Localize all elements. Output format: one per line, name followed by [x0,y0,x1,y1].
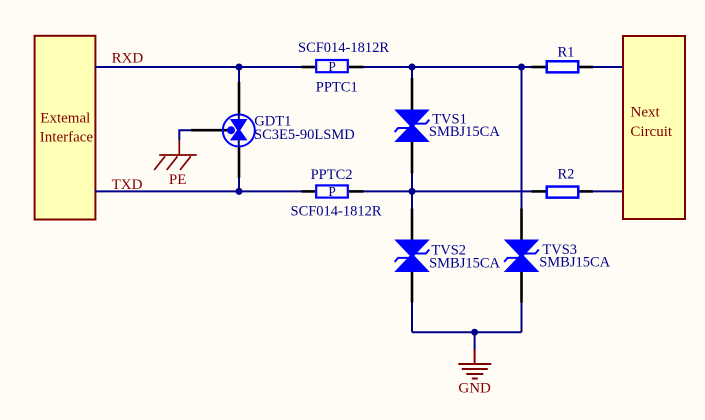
svg-text:PPTC1: PPTC1 [316,79,358,95]
svg-text:TXD: TXD [112,177,143,193]
svg-text:Circuit: Circuit [630,124,672,140]
svg-text:PE: PE [169,172,187,188]
svg-text:R2: R2 [558,167,575,183]
svg-text:SCF014-1812R: SCF014-1812R [298,40,389,56]
svg-text:SMBJ15CA: SMBJ15CA [429,255,500,271]
svg-text:SMBJ15CA: SMBJ15CA [429,124,500,140]
svg-text:SMBJ15CA: SMBJ15CA [539,254,610,270]
svg-text:P: P [328,184,335,199]
svg-text:SCF014-1812R: SCF014-1812R [291,203,382,219]
svg-text:Interface: Interface [40,129,94,145]
svg-text:GND: GND [458,381,491,397]
svg-text:Next: Next [631,105,661,121]
svg-text:RXD: RXD [112,51,144,67]
svg-text:PPTC2: PPTC2 [311,167,353,183]
svg-text:R1: R1 [558,44,575,60]
svg-text:Extemal: Extemal [40,111,90,127]
svg-text:P: P [328,59,335,74]
svg-text:SC3E5-90LSMD: SC3E5-90LSMD [254,127,355,143]
